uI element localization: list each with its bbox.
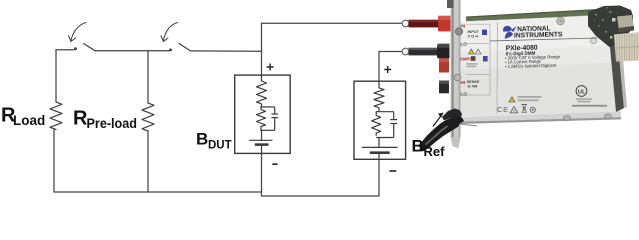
jack red AMPS (empty) bbox=[439, 59, 449, 73]
switch S1 blade bbox=[84, 44, 96, 51]
screw on bottom edge right bbox=[605, 114, 612, 119]
capacitor B_DUT parallel C bbox=[274, 107, 276, 114]
svg-text:Pre-load: Pre-load bbox=[87, 116, 138, 131]
svg-text:LO: LO bbox=[461, 42, 468, 47]
module PCB green top strip bbox=[466, 9, 597, 18]
wire: battery to box bottom bbox=[261, 145, 263, 154]
actuator arrow over S1 bbox=[69, 23, 87, 42]
wire: parallel top rail bbox=[260, 106, 274, 108]
blue box DC bbox=[482, 30, 487, 35]
wire: B_Ref negative lead bbox=[378, 160, 380, 197]
svg-text:CE: CE bbox=[497, 105, 509, 114]
minus sign B_Ref bbox=[390, 170, 397, 172]
svg-text:UL: UL bbox=[578, 90, 586, 96]
svg-text:INSTRUMENTS: INSTRUMENTS bbox=[514, 31, 563, 39]
svg-text:B: B bbox=[196, 130, 208, 149]
screw top right of panel bbox=[590, 37, 596, 43]
module front panel bbox=[460, 16, 626, 118]
svg-text:V Ω ↦: V Ω ↦ bbox=[468, 33, 480, 38]
B_Ref box bbox=[354, 81, 406, 159]
switch S2 contact bbox=[169, 49, 172, 52]
minus sign B_DUT bbox=[272, 163, 277, 165]
jack red HI (plugged) bbox=[439, 16, 451, 32]
bracket top cap bbox=[447, 0, 454, 8]
wire: HI lead to plug bbox=[262, 22, 403, 24]
wire: parallel bottom rail bbox=[260, 129, 274, 131]
jack wiring diagram lines bbox=[466, 24, 490, 95]
black test lead LO plug body bbox=[409, 48, 438, 56]
dark PCB corner top-right bbox=[588, 6, 633, 48]
B_DUT box bbox=[235, 75, 291, 153]
switch S2 blade bbox=[179, 44, 191, 51]
tiny text fuse note bbox=[466, 63, 478, 64]
screw on bottom edge left bbox=[564, 116, 571, 121]
panel bottom folded edge bbox=[459, 112, 621, 124]
plus sign B_Ref bbox=[384, 66, 391, 73]
alligator clip probe bbox=[420, 109, 465, 152]
wire: to battery bbox=[378, 138, 380, 148]
panel top edge shadow bbox=[466, 15, 597, 24]
hourglass icon bbox=[522, 105, 527, 113]
divider line under logo bbox=[490, 38, 598, 41]
bracket jack barrel top bbox=[455, 28, 462, 35]
capacitor B_Ref parallel C bbox=[393, 112, 395, 120]
wire: B_Ref internal top lead bbox=[378, 81, 380, 88]
screw on top edge bbox=[557, 17, 565, 25]
panel shading overlay bbox=[460, 62, 621, 118]
wire: R_Pre-load vertical upper bbox=[147, 51, 149, 103]
jack black SENSE (empty) bbox=[439, 81, 449, 94]
actuator arrow over S2 bbox=[161, 23, 178, 42]
banana plug collar HI bbox=[402, 20, 409, 27]
warning triangle icon bbox=[510, 107, 518, 113]
svg-text:HI: HI bbox=[461, 80, 466, 85]
wire: parallel bottom rail bbox=[376, 137, 394, 139]
fuse icon bbox=[471, 56, 475, 61]
bracket tip rod bbox=[458, 124, 477, 126]
svg-text:Ref: Ref bbox=[424, 144, 446, 159]
bracket bottom tip bbox=[451, 137, 461, 149]
wire: to battery bbox=[261, 130, 263, 140]
wire: S2 to B_DUT top node bbox=[191, 50, 262, 52]
resistor B_Ref parallel R bbox=[372, 112, 381, 136]
UL listed logo bbox=[576, 86, 587, 97]
module right edge dark strip bbox=[610, 45, 624, 113]
resistor B_Ref series bbox=[374, 88, 384, 108]
wire: B_DUT negative lead bbox=[261, 154, 263, 197]
blue box 1A bbox=[483, 56, 488, 61]
backplane connector upper block bbox=[617, 15, 634, 31]
wire: between switches bbox=[95, 50, 169, 52]
svg-text:LO: LO bbox=[461, 92, 468, 97]
wire: LO lead to plug bbox=[379, 51, 402, 53]
wire: bottom rail left (y=192) bbox=[54, 191, 262, 193]
resistor B_DUT series bbox=[257, 81, 267, 104]
plus sign B_DUT bbox=[267, 64, 274, 71]
wire: battery to box bottom bbox=[378, 153, 380, 160]
switch S1 contact bbox=[74, 47, 77, 50]
panel divider vertical bbox=[496, 22, 499, 114]
svg-text:HI: HI bbox=[461, 24, 466, 29]
wire: B_Ref riser bbox=[378, 52, 380, 82]
wire: to parallel section bbox=[378, 108, 380, 112]
warning triangles bbox=[469, 49, 475, 54]
wire: bottom rail right (y=196) bbox=[262, 195, 380, 197]
svg-text:AMPS: AMPS bbox=[460, 57, 472, 62]
NI eagle logo bbox=[503, 26, 517, 39]
resistor R_Load bbox=[50, 102, 62, 130]
wire: B_DUT HI riser bbox=[261, 23, 263, 75]
PCB component speckles bbox=[594, 7, 616, 39]
mounting bracket strip bbox=[451, 0, 461, 137]
backplane connector main block bbox=[614, 32, 639, 62]
jack black LO (plugged) bbox=[438, 44, 450, 59]
wire: parallel top rail bbox=[376, 111, 394, 113]
svg-text:DUT: DUT bbox=[208, 140, 232, 152]
wire: top-left stub to switch S1 contact bbox=[56, 49, 74, 51]
wire: B_DUT internal top lead bbox=[261, 75, 263, 81]
resistor B_DUT parallel R bbox=[257, 107, 266, 130]
svg-text:B: B bbox=[412, 137, 424, 156]
warning fuse note icon bbox=[509, 97, 515, 102]
wire: to parallel section bbox=[261, 104, 263, 107]
bracket screw mid bbox=[454, 74, 461, 81]
battery B_Ref plates bbox=[362, 146, 398, 148]
red test lead HI plug body bbox=[409, 20, 439, 28]
battery B_DUT plates bbox=[249, 139, 272, 141]
wire: left vertical (R_Load branch) bbox=[55, 50, 57, 102]
banana plug collar LO bbox=[402, 48, 409, 55]
svg-text:Ω 4W: Ω 4W bbox=[468, 84, 478, 88]
tiny cert text bbox=[576, 98, 592, 100]
wire: R_Pre-load vertical lower bbox=[147, 131, 149, 192]
circle icon bbox=[530, 107, 535, 112]
resistor R_Pre-load bbox=[142, 103, 154, 131]
svg-text:Load: Load bbox=[13, 113, 45, 128]
